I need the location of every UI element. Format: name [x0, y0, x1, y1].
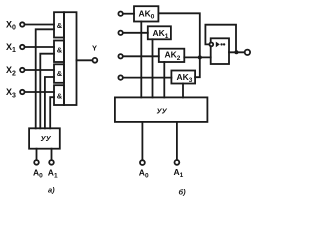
terminal A0 a: [34, 160, 39, 165]
svg-text:Y: Y: [92, 44, 97, 53]
control unit UU a: [29, 128, 60, 148]
wire X2: [25, 69, 54, 71]
wire b in2: [123, 55, 159, 57]
select wire gate4: [50, 97, 54, 128]
wire output: [229, 51, 245, 53]
svg-text:б): б): [179, 188, 187, 197]
wire A1 b: [176, 122, 178, 160]
terminal output: [245, 50, 250, 55]
control unit UU b: [115, 97, 207, 122]
select wire gate3: [45, 77, 54, 128]
analog switch AK0: [134, 6, 158, 21]
terminal b in0: [118, 12, 122, 16]
terminal A1 b: [175, 160, 180, 165]
control wire AK1: [152, 39, 154, 97]
AND gate 4: [54, 85, 64, 105]
analog switch AK1: [148, 26, 171, 40]
terminal b in3: [118, 75, 122, 79]
wire AK0 output: [158, 13, 199, 57]
inverting input circle: [209, 43, 213, 47]
svg-text:&: &: [57, 91, 63, 100]
wire b in3: [123, 77, 171, 79]
AND gate 2: [54, 41, 64, 63]
wire X1: [25, 46, 54, 48]
svg-text:УУ: УУ: [157, 107, 168, 116]
wire X3: [25, 91, 54, 93]
wire Y: [77, 59, 93, 61]
svg-text:&: &: [57, 69, 63, 78]
junction bus: [198, 55, 202, 59]
analog switch AK2: [159, 49, 185, 62]
terminal A1 a: [49, 160, 54, 165]
wire A0 a: [36, 149, 38, 160]
op-amp U1: [211, 38, 229, 64]
terminal Y: [93, 58, 98, 63]
AND gate 3: [54, 64, 64, 83]
wire A1 a: [51, 149, 53, 160]
terminal b in1: [118, 31, 122, 35]
terminal X2: [20, 68, 24, 72]
svg-text:а): а): [48, 186, 55, 195]
control wire AK0: [140, 22, 142, 98]
wire summing bus: [184, 56, 210, 58]
control wire AK2: [163, 62, 165, 97]
terminal X0: [20, 22, 24, 26]
terminal X1: [20, 45, 24, 49]
wire AK3 output: [195, 57, 200, 77]
junction output: [234, 50, 238, 54]
control wire AK3: [182, 84, 184, 98]
terminal X3: [20, 90, 24, 94]
OR column: [64, 12, 77, 105]
terminal A0 b: [140, 160, 145, 165]
analog switch AK3: [171, 71, 195, 85]
AND gate 1: [54, 12, 64, 37]
svg-text:&: &: [57, 21, 63, 30]
wire b in0: [123, 13, 134, 15]
wire b in1: [123, 32, 148, 34]
terminal b in2: [118, 54, 122, 58]
svg-text:УУ: УУ: [41, 134, 52, 143]
wire A0 b: [141, 122, 143, 160]
select wire gate1: [36, 29, 54, 128]
wire X0: [25, 24, 54, 26]
feedback wire: [205, 25, 236, 53]
select wire gate2: [40, 54, 54, 129]
svg-text:&: &: [57, 46, 63, 55]
